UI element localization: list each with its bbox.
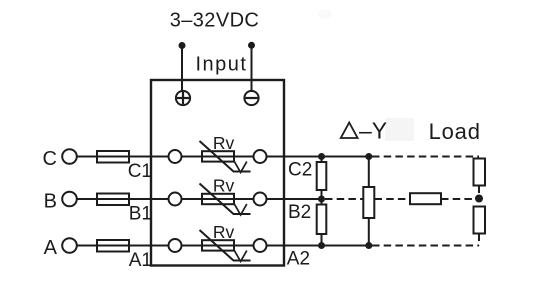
svg-text:B2: B2 — [288, 202, 311, 223]
svg-text:A1: A1 — [129, 250, 152, 271]
svg-text:–Y: –Y — [359, 118, 387, 144]
svg-text:C: C — [43, 148, 57, 170]
svg-text:B1: B1 — [129, 204, 152, 225]
svg-text:B: B — [44, 191, 57, 213]
svg-text:C1: C1 — [128, 161, 152, 182]
svg-text:Rv: Rv — [213, 176, 235, 196]
svg-text:Rv: Rv — [213, 222, 235, 242]
svg-text:A2: A2 — [287, 249, 310, 270]
svg-text:Load: Load — [429, 119, 481, 144]
svg-text:3–32VDC: 3–32VDC — [170, 10, 260, 32]
svg-text:Input: Input — [196, 54, 248, 76]
svg-text:A: A — [44, 237, 58, 259]
svg-text:C2: C2 — [288, 160, 312, 181]
svg-text:Rv: Rv — [213, 133, 235, 153]
